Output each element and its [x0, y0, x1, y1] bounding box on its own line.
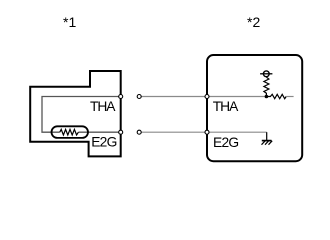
ECU box *2	[207, 55, 302, 161]
svg-text:*2: *2	[247, 14, 260, 30]
power terminal bar	[260, 73, 272, 75]
svg-text:THA: THA	[213, 99, 239, 114]
junction node THA	[265, 95, 269, 99]
wire THA inside ECU	[207, 96, 266, 98]
resistor (horizontal)	[266, 94, 286, 98]
ground hatch strokes	[262, 141, 273, 145]
wire THA harness	[141, 96, 206, 98]
wire E2G drop to ground	[266, 132, 268, 140]
pin THA (ECU edge)	[205, 95, 209, 99]
svg-text:E2G: E2G	[91, 135, 116, 150]
connector pin circle THA (harness side)	[137, 95, 141, 99]
wire E2G harness	[141, 131, 206, 133]
svg-text:THA: THA	[90, 99, 116, 114]
thermistor oval	[52, 126, 89, 138]
power terminal circle	[263, 71, 269, 77]
wire from thermistor to E2G pin	[78, 131, 120, 133]
pin E2G (ECU edge)	[205, 130, 209, 134]
pin E2G (connector edge)	[119, 130, 123, 134]
wire E2G inside ECU	[207, 131, 267, 133]
thermistor zigzag	[60, 129, 79, 135]
wire stub after resistor	[286, 96, 293, 98]
svg-text:*1: *1	[63, 14, 76, 30]
ground (chassis) bar	[262, 140, 272, 142]
svg-text:E2G: E2G	[213, 135, 238, 150]
connector pin circle E2G (harness side)	[137, 130, 141, 134]
connector *1 outline	[30, 71, 121, 156]
pin THA (connector edge)	[119, 95, 123, 99]
resistor R (vertical, pull-up)	[264, 77, 269, 96]
wire THA loop inside connector	[42, 97, 121, 133]
